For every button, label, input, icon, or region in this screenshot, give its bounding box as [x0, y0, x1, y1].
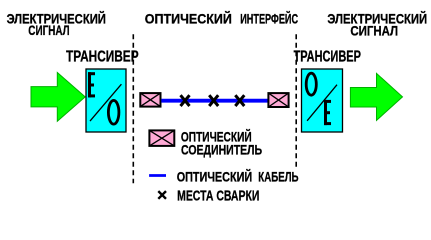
svg-text:СИГНАЛ: СИГНАЛ	[350, 23, 398, 38]
legend: optical cable label	[177, 170, 299, 185]
svg-text:ТРАНСИВЕР: ТРАНСИВЕР	[294, 48, 361, 65]
slash in O/E box	[307, 85, 337, 121]
letter E in E/O box	[88, 72, 95, 97]
optical connector (right)	[268, 93, 288, 107]
splice mark 3	[235, 95, 244, 106]
letter O in E/O box	[108, 100, 119, 124]
label: electrical signal (left)	[7, 12, 106, 39]
optical connector (left)	[140, 93, 160, 107]
legend: optical connector label	[181, 130, 262, 158]
transceiver E/O box (left)	[86, 69, 126, 132]
transceiver O/E box (right)	[302, 69, 343, 132]
splice mark 2	[209, 95, 218, 106]
label: optical interface	[145, 12, 299, 27]
svg-text:ОПТИЧЕСКИЙ: ОПТИЧЕСКИЙ	[177, 170, 253, 185]
legend: optical cable symbol	[149, 174, 166, 177]
legend: optical connector symbol	[149, 130, 174, 146]
legend: splice symbol	[158, 191, 166, 199]
svg-text:ОПТИЧЕСКИЙ: ОПТИЧЕСКИЙ	[145, 12, 232, 27]
label: electrical signal (right)	[327, 12, 427, 39]
dashed boundary line (left)	[132, 34, 134, 183]
optical cable (fiber between connectors)	[161, 99, 267, 103]
green arrow (electrical input)	[31, 73, 85, 122]
svg-text:ТРАНСИВЕР: ТРАНСИВЕР	[66, 48, 139, 65]
svg-text:МЕСТА СВАРКИ: МЕСТА СВАРКИ	[177, 188, 259, 204]
svg-text:КАБЕЛЬ: КАБЕЛЬ	[258, 170, 298, 185]
svg-text:СИГНАЛ: СИГНАЛ	[28, 23, 69, 38]
slash in E/O box	[90, 84, 121, 121]
dashed boundary line (right)	[295, 34, 297, 168]
letter E in O/E box	[324, 100, 331, 125]
svg-text:СОЕДИНИТЕЛЬ: СОЕДИНИТЕЛЬ	[181, 142, 262, 158]
letter O in O/E box	[306, 73, 316, 95]
green arrow (electrical output)	[350, 73, 402, 120]
svg-text:ИНТЕРФЕЙС: ИНТЕРФЕЙС	[240, 12, 298, 27]
splice mark 1	[181, 95, 190, 106]
